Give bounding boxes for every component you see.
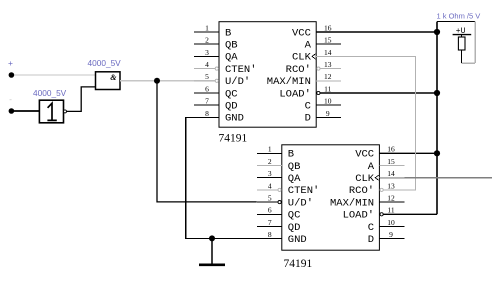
- U1 CLK edge arrow: [312, 54, 316, 59]
- junction U1 VCC / rail: [434, 29, 440, 35]
- svg-text:GND: GND: [288, 234, 307, 246]
- svg-text:1: 1: [268, 145, 272, 154]
- svg-text:B: B: [225, 27, 231, 39]
- node + (positive input terminal): [8, 58, 14, 78]
- U2 CLK edge arrow: [375, 175, 379, 180]
- svg-text:7: 7: [205, 97, 209, 106]
- svg-text:11: 11: [387, 206, 394, 215]
- svg-text:QD: QD: [288, 222, 301, 234]
- svg-text:14: 14: [324, 48, 332, 57]
- svg-text:D: D: [368, 234, 374, 246]
- svg-text:MAX/MIN: MAX/MIN: [330, 197, 374, 209]
- wire node - to inverter U4 input: [11, 110, 39, 112]
- wire rail to resistor R1 (top bracket): [437, 21, 475, 23]
- resistor R1 body: [458, 35, 465, 64]
- U2 pin 3 (QA) stub: [257, 169, 282, 178]
- IC U2 74191 body: [282, 145, 380, 250]
- U2 pin 15 (A) stub: [379, 157, 404, 166]
- svg-text:10: 10: [324, 97, 332, 106]
- svg-text:QD: QD: [225, 101, 238, 113]
- wire junction down to U2 pin 5 (U/D): [157, 81, 257, 202]
- svg-text:7: 7: [268, 218, 272, 227]
- U1 pin 2 (QB) stub: [194, 36, 219, 45]
- U3 label 4000_5V: [88, 58, 122, 68]
- wire U1 pin 11 LOAD to rail: [320, 92, 437, 94]
- svg-text:&: &: [110, 73, 117, 82]
- U1 pin 15 (A) stub: [316, 36, 341, 45]
- svg-text:LOAD': LOAD': [343, 210, 375, 222]
- svg-text:QA: QA: [288, 173, 301, 185]
- svg-text:QA: QA: [225, 52, 238, 64]
- junction U2 VCC / rail: [434, 150, 440, 156]
- U2 pin 5 (U/D') stub: [257, 194, 281, 204]
- svg-text:MAX/MIN: MAX/MIN: [267, 76, 311, 88]
- wire rail to U2 pin 11 LOAD: [384, 213, 437, 215]
- svg-text:QC: QC: [288, 210, 301, 222]
- svg-text:8: 8: [205, 109, 209, 118]
- U1 value label 74191: [219, 133, 248, 145]
- svg-text:74191: 74191: [219, 133, 248, 145]
- wire U4 output to AND gate input B: [67, 87, 96, 112]
- svg-text:C: C: [368, 222, 374, 234]
- svg-text:CTEN': CTEN': [288, 185, 320, 197]
- svg-text:QB: QB: [288, 161, 301, 173]
- svg-text:CLK: CLK: [292, 52, 312, 64]
- svg-text:8: 8: [268, 230, 272, 239]
- svg-text:15: 15: [324, 36, 332, 45]
- IC U1 74191 body: [219, 22, 316, 128]
- U2 pin 16 (VCC) stub: [379, 145, 404, 154]
- U1 pin 11 (LOAD') stub: [317, 84, 341, 94]
- ground junction: [209, 235, 215, 241]
- svg-text:A: A: [368, 161, 375, 173]
- svg-text:4: 4: [268, 181, 272, 190]
- svg-text:CTEN': CTEN': [225, 64, 257, 76]
- U2 pin 4 (CTEN') stub: [257, 181, 281, 191]
- svg-text:14: 14: [387, 169, 395, 178]
- +U supply bar: [453, 27, 472, 36]
- svg-text:13: 13: [387, 181, 395, 190]
- svg-text:1 k Ohm /5 V: 1 k Ohm /5 V: [437, 12, 481, 21]
- svg-text:GND: GND: [225, 113, 244, 125]
- svg-text:12: 12: [324, 72, 332, 81]
- svg-text:CLK: CLK: [355, 173, 375, 185]
- svg-text:2: 2: [268, 157, 272, 166]
- U1 pin 3 (QA) stub: [194, 48, 219, 57]
- svg-text:C: C: [305, 101, 311, 113]
- svg-text:5: 5: [268, 194, 272, 203]
- U2 pin name labels: [288, 149, 375, 246]
- inverter gate U4 (4000_5V): [39, 100, 66, 123]
- svg-text:16: 16: [324, 23, 332, 32]
- wire U2 pin 16 VCC to rail: [379, 152, 437, 154]
- svg-text:2: 2: [205, 36, 209, 45]
- svg-text:13: 13: [324, 60, 332, 69]
- U2 pin 8 (GND) stub: [257, 230, 282, 239]
- svg-text:+: +: [8, 58, 13, 68]
- junction on U3 output net: [154, 78, 160, 84]
- wire U3 output to U1 pin 5 (U/D): [120, 80, 215, 82]
- svg-text:U/D': U/D': [225, 76, 250, 88]
- svg-text:QB: QB: [225, 40, 238, 52]
- U2 pin 11 (LOAD') stub: [380, 206, 404, 216]
- svg-text:5: 5: [205, 72, 209, 81]
- U2 pin 2 (QB) stub: [257, 157, 282, 166]
- svg-text:6: 6: [268, 206, 272, 215]
- svg-text:4000_5V: 4000_5V: [33, 88, 67, 98]
- svg-text:10: 10: [387, 218, 395, 227]
- svg-text:3: 3: [268, 169, 272, 178]
- svg-text:LOAD': LOAD': [279, 88, 311, 100]
- svg-text:4000_5V: 4000_5V: [88, 58, 122, 68]
- U2 pin 1 (B) stub: [257, 145, 282, 154]
- svg-text:VCC: VCC: [292, 27, 311, 39]
- U2 pin 14 (CLK) stub: [379, 169, 404, 178]
- AND gate U3 (4000_5V): [96, 72, 121, 90]
- wire U2 pin 14 CLK to right edge: [379, 177, 492, 179]
- svg-text:U/D': U/D': [288, 197, 313, 209]
- U1 pin 5 (U/D') stub: [194, 72, 218, 82]
- svg-text:A: A: [305, 40, 312, 52]
- U1 pin 16 (VCC) stub: [316, 23, 341, 32]
- U2 pin 12 (MAX/MIN) stub: [379, 194, 404, 203]
- wire resistor bracket right/bottom: [462, 22, 476, 64]
- svg-text:D: D: [305, 113, 311, 125]
- U2 pin 13 (RCO') stub: [380, 181, 404, 191]
- U2 pin 10 (C) stub: [379, 218, 404, 227]
- svg-text:11: 11: [324, 84, 331, 93]
- U1 pin 9 (D) stub: [316, 109, 341, 118]
- U2 value label 74191: [284, 258, 313, 270]
- svg-text:15: 15: [387, 157, 395, 166]
- svg-text:1: 1: [205, 23, 209, 32]
- U1 pin 6 (QC) stub: [194, 84, 219, 93]
- wire U1 pin 8 GND down to ground rail: [186, 117, 257, 238]
- U1 pin 1 (B) stub: [194, 23, 219, 32]
- U2 pin 9 (D) stub: [379, 230, 404, 239]
- U1 pin 10 (C) stub: [316, 97, 341, 106]
- svg-text:4: 4: [205, 60, 209, 69]
- svg-text:RCO': RCO': [286, 64, 311, 76]
- +5V rail vertical wire: [436, 22, 438, 215]
- U1 pin 13 (RCO') stub: [317, 60, 341, 70]
- U1 pin 7 (QD) stub: [194, 97, 219, 106]
- wire node + to AND gate input A: [11, 74, 95, 76]
- svg-text:B: B: [288, 149, 294, 161]
- svg-text:QC: QC: [225, 88, 238, 100]
- svg-text:16: 16: [387, 145, 395, 154]
- U1 pin 4 (CTEN') stub: [194, 60, 218, 70]
- ground symbol: [199, 238, 225, 264]
- junction U1 LOAD / rail: [434, 90, 440, 96]
- R1 value label 1 kOhm /5 V: [437, 12, 481, 21]
- svg-text:6: 6: [205, 84, 209, 93]
- svg-text:3: 3: [205, 48, 209, 57]
- svg-text:12: 12: [387, 194, 395, 203]
- U1 pin 14 (CLK) stub: [316, 48, 341, 57]
- U1 pin 12 (MAX/MIN) stub: [316, 72, 341, 81]
- U2 pin 7 (QD) stub: [257, 218, 282, 227]
- svg-text:-: -: [9, 94, 12, 104]
- svg-text:RCO': RCO': [349, 185, 374, 197]
- U1 pin name labels: [225, 27, 312, 124]
- svg-text:9: 9: [326, 109, 330, 118]
- U2 pin 6 (QC) stub: [257, 206, 282, 215]
- svg-text:9: 9: [389, 230, 393, 239]
- wire U1 pin 16 VCC to +5V rail: [316, 31, 437, 33]
- svg-text:VCC: VCC: [355, 149, 374, 161]
- U4 label 4000_5V: [33, 88, 67, 98]
- svg-text:+U: +U: [456, 27, 466, 36]
- svg-text:74191: 74191: [284, 258, 313, 270]
- node - (negative input terminal): [9, 94, 15, 114]
- wire U1 pin 14 CLK to U2 pin 13 RCO: [316, 56, 415, 190]
- U1 pin 8 (GND) stub: [194, 109, 219, 118]
